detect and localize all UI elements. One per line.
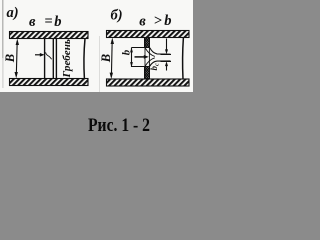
svg-text:а): а) <box>7 5 19 21</box>
svg-text:=: = <box>44 13 52 29</box>
svg-text:Гребень: Гребень <box>61 39 73 79</box>
svg-text:в: в <box>29 14 36 30</box>
svg-text:В: В <box>3 54 17 63</box>
svg-text:>: > <box>154 13 162 29</box>
svg-text:b: b <box>54 14 61 30</box>
svg-text:в: в <box>139 14 146 30</box>
svg-text:Рис. 1 - 2: Рис. 1 - 2 <box>88 115 150 136</box>
svg-text:b: b <box>164 13 171 29</box>
svg-text:б): б) <box>111 8 123 24</box>
svg-text:b: b <box>120 49 132 55</box>
svg-text:В: В <box>99 54 113 63</box>
